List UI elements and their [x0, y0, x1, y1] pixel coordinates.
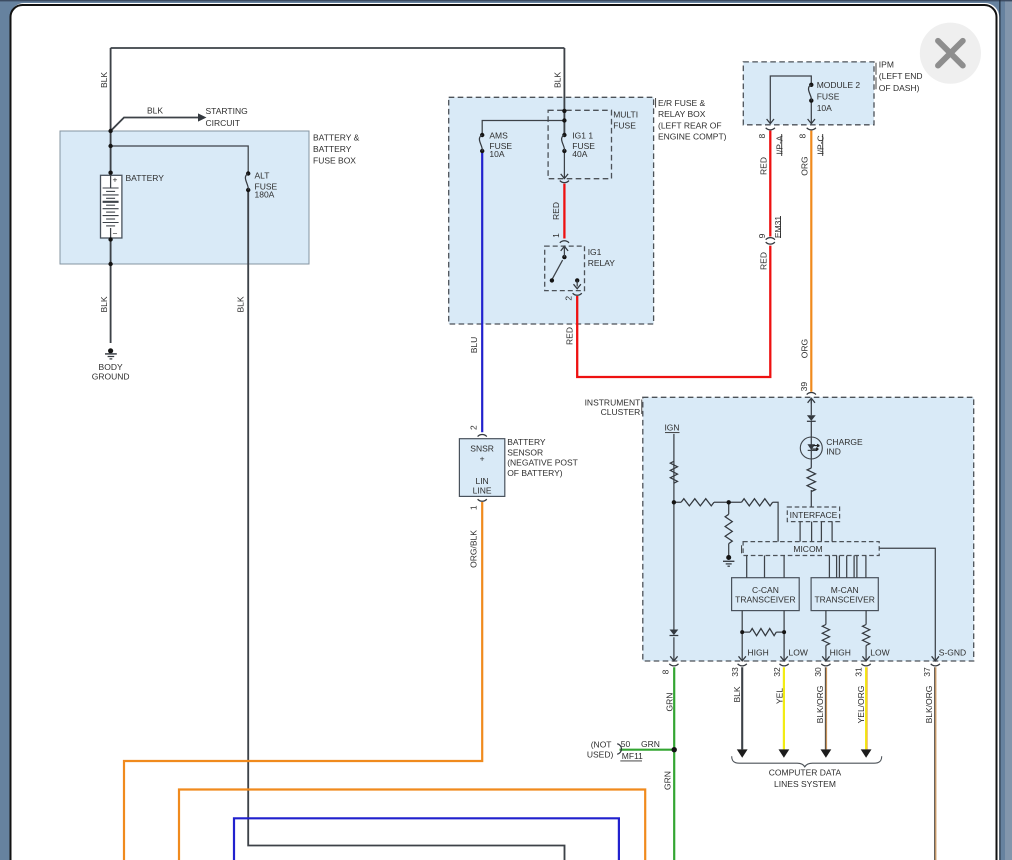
svg-text:GRN: GRN — [641, 739, 660, 749]
svg-text:GRN: GRN — [662, 771, 672, 790]
svg-text:GROUND: GROUND — [92, 372, 130, 382]
svg-text:LIN: LIN — [475, 476, 488, 486]
svg-text:M-CAN: M-CAN — [831, 585, 859, 595]
svg-text:IND: IND — [826, 447, 841, 457]
svg-text:BLK: BLK — [99, 296, 109, 312]
svg-text:BLU: BLU — [469, 337, 479, 354]
svg-text:8: 8 — [757, 134, 767, 139]
svg-text:(LEFT END: (LEFT END — [879, 71, 923, 81]
svg-text:OF DASH): OF DASH) — [879, 83, 920, 93]
svg-text:YEL: YEL — [774, 688, 784, 704]
svg-text:FUSE: FUSE — [613, 121, 636, 131]
svg-text:HIGH: HIGH — [748, 647, 769, 657]
svg-text:IG1: IG1 — [588, 247, 602, 257]
svg-text:TRANSCEIVER: TRANSCEIVER — [735, 595, 795, 605]
svg-text:CHARGE: CHARGE — [826, 437, 863, 447]
svg-text:BLK/ORG: BLK/ORG — [815, 686, 825, 724]
svg-text:BATTERY: BATTERY — [507, 437, 546, 447]
svg-text:33: 33 — [730, 667, 740, 677]
svg-text:BODY: BODY — [99, 362, 123, 372]
svg-text:INSTRUMENT: INSTRUMENT — [585, 397, 641, 407]
svg-text:+: + — [113, 175, 118, 185]
svg-text:BLK: BLK — [147, 106, 163, 116]
svg-text:31: 31 — [854, 667, 864, 677]
svg-text:FUSE BOX: FUSE BOX — [313, 156, 356, 166]
svg-text:(NOT: (NOT — [591, 739, 612, 749]
svg-text:BATTERY: BATTERY — [126, 173, 165, 183]
svg-text:INTERFACE: INTERFACE — [790, 510, 838, 520]
svg-text:1: 1 — [469, 505, 479, 510]
svg-text:BLK/ORG: BLK/ORG — [924, 686, 934, 724]
svg-text:2: 2 — [468, 425, 478, 430]
svg-text:ORG/BLK: ORG/BLK — [469, 530, 479, 568]
svg-text:ORG: ORG — [799, 156, 809, 175]
svg-text:RELAY: RELAY — [588, 258, 616, 268]
svg-text:ENGINE COMPT): ENGINE COMPT) — [658, 132, 727, 142]
svg-text:8: 8 — [797, 134, 807, 139]
svg-text:RED: RED — [759, 157, 769, 175]
svg-text:SENSOR: SENSOR — [507, 447, 543, 457]
svg-text:40A: 40A — [572, 149, 587, 159]
svg-text:GRN: GRN — [664, 693, 674, 712]
svg-text:180A: 180A — [255, 190, 275, 200]
svg-text:MF11: MF11 — [622, 751, 643, 761]
svg-text:FUSE: FUSE — [817, 91, 840, 101]
svg-text:TRANSCEIVER: TRANSCEIVER — [814, 595, 874, 605]
svg-text:LOW: LOW — [870, 647, 889, 657]
svg-text:RED: RED — [551, 202, 561, 220]
svg-text:(NEGATIVE POST: (NEGATIVE POST — [507, 458, 578, 468]
svg-text:CIRCUIT: CIRCUIT — [206, 118, 240, 128]
svg-text:LINE: LINE — [473, 486, 492, 496]
svg-text:9: 9 — [757, 233, 767, 238]
svg-text:I/P-C: I/P-C — [815, 135, 825, 154]
svg-text:BATTERY: BATTERY — [313, 144, 352, 154]
svg-text:CLUSTER: CLUSTER — [601, 407, 641, 417]
svg-text:BATTERY &: BATTERY & — [313, 133, 360, 143]
svg-text:YEL/ORG: YEL/ORG — [856, 686, 866, 724]
svg-text:HIGH: HIGH — [830, 647, 851, 657]
svg-text:(LEFT REAR OF: (LEFT REAR OF — [658, 120, 722, 130]
svg-text:1: 1 — [551, 233, 561, 238]
svg-text:ALT: ALT — [255, 171, 270, 181]
svg-text:LINES SYSTEM: LINES SYSTEM — [774, 779, 836, 789]
svg-text:C-CAN: C-CAN — [752, 585, 779, 595]
svg-text:I/P-A: I/P-A — [774, 135, 784, 154]
svg-text:RED: RED — [565, 327, 575, 345]
svg-text:OF BATTERY): OF BATTERY) — [507, 468, 563, 478]
svg-text:RED: RED — [759, 252, 769, 270]
svg-text:10A: 10A — [489, 149, 504, 159]
svg-text:+: + — [480, 454, 485, 464]
svg-text:MICOM: MICOM — [793, 544, 822, 554]
svg-text:32: 32 — [772, 667, 782, 677]
svg-text:2: 2 — [563, 296, 573, 301]
svg-text:RELAY BOX: RELAY BOX — [658, 109, 706, 119]
svg-text:E/R FUSE &: E/R FUSE & — [658, 98, 706, 108]
svg-text:ORG: ORG — [799, 339, 809, 358]
svg-text:30: 30 — [813, 667, 823, 677]
svg-text:SNSR: SNSR — [470, 443, 494, 453]
svg-text:8: 8 — [660, 669, 670, 674]
svg-text:IGN: IGN — [664, 423, 679, 433]
svg-text:BLK: BLK — [99, 72, 109, 88]
svg-text:−: − — [113, 229, 118, 239]
svg-text:BLK: BLK — [236, 296, 246, 312]
svg-text:MODULE 2: MODULE 2 — [817, 80, 861, 90]
svg-text:AMS: AMS — [489, 131, 508, 141]
svg-text:COMPUTER DATA: COMPUTER DATA — [769, 768, 842, 778]
svg-text:S-GND: S-GND — [939, 647, 966, 657]
svg-text:EM31: EM31 — [773, 216, 783, 238]
svg-text:IPM: IPM — [879, 60, 894, 70]
svg-text:IG1 1: IG1 1 — [572, 131, 593, 141]
svg-text:LOW: LOW — [789, 647, 808, 657]
svg-text:50: 50 — [621, 739, 631, 749]
svg-text:USED): USED) — [587, 749, 614, 759]
svg-text:MULTI: MULTI — [613, 110, 638, 120]
svg-text:BLK: BLK — [732, 686, 742, 702]
svg-text:10A: 10A — [817, 103, 832, 113]
svg-text:STARTING: STARTING — [206, 106, 248, 116]
svg-text:37: 37 — [922, 667, 932, 677]
svg-text:BLK: BLK — [552, 72, 562, 88]
svg-text:39: 39 — [799, 382, 809, 392]
